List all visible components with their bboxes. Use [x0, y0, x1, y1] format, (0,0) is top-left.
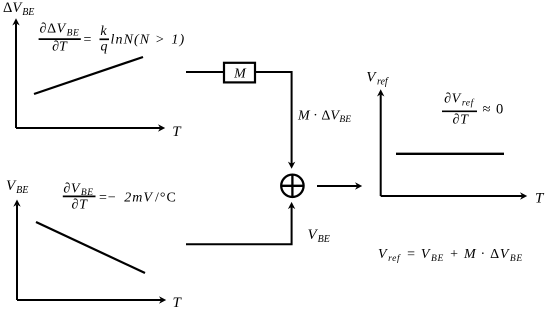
wire from ΔV_BE graph to gain block M — [186, 71, 224, 73]
svg-text:VBE: VBE — [6, 178, 28, 196]
svg-text:∂T: ∂T — [453, 113, 470, 128]
svg-text:=: = — [84, 33, 92, 48]
gain block M — [224, 63, 255, 83]
svg-text:M · ΔVBE: M · ΔVBE — [297, 108, 351, 125]
y-axis of V_BE graph — [13, 200, 20, 301]
svg-text:VBE: VBE — [308, 227, 330, 245]
arrow from summing junction to V_ref graph — [317, 182, 362, 189]
svg-text:=−2mV/°C: =−2mV/°C — [99, 190, 177, 205]
svg-text:lnN(N > 1): lnN(N > 1) — [111, 33, 186, 48]
x-axis of V_BE graph — [17, 296, 166, 303]
y-axis of ΔV_BE graph — [12, 18, 19, 128]
svg-text:T: T — [535, 191, 545, 207]
svg-text:q: q — [101, 40, 108, 55]
svg-text:≈0: ≈0 — [483, 102, 504, 118]
svg-text:∂Vref: ∂Vref — [444, 92, 474, 109]
wire V_BE from graph to summing junction — [186, 202, 295, 244]
equation ∂V_ref/∂T ≈ 0 — [442, 92, 503, 128]
svg-text:k: k — [100, 24, 107, 39]
ΔV_BE vs T rising curve — [34, 57, 143, 94]
svg-text:T: T — [172, 124, 182, 140]
y-axis of V_ref graph — [377, 89, 384, 196]
equation ∂V_BE/∂T = −2mV/°C — [63, 181, 177, 212]
svg-text:ΔVBE: ΔVBE — [3, 0, 34, 18]
svg-text:∂T: ∂T — [72, 197, 89, 212]
V_ref vs T flat line — [396, 153, 504, 155]
equation ∂ΔV_BE/∂T = k/q lnN(N>1) — [39, 22, 186, 55]
svg-text:Vref: Vref — [366, 70, 389, 88]
svg-text:M: M — [233, 67, 247, 82]
x-axis of ΔV_BE graph — [16, 124, 165, 131]
x-axis of V_ref graph — [381, 192, 528, 199]
svg-text:∂T: ∂T — [52, 40, 68, 55]
V_BE vs T falling curve — [36, 222, 145, 273]
summing junction — [281, 175, 303, 197]
svg-text:∂ΔVBE: ∂ΔVBE — [40, 22, 80, 39]
svg-text:T: T — [173, 295, 183, 311]
svg-text:Vref = VBE + M · ΔVBE: Vref = VBE + M · ΔVBE — [378, 247, 523, 264]
wire from M to summing junction — [255, 72, 295, 169]
